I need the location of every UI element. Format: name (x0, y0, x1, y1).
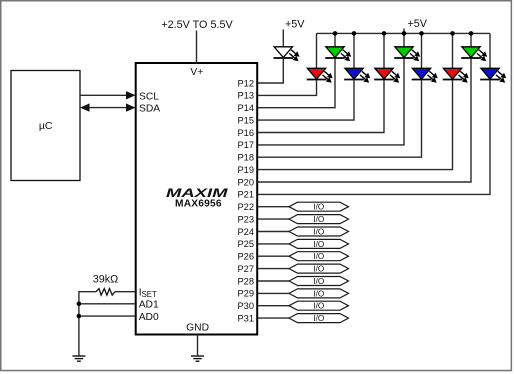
svg-text:P20: P20 (237, 177, 254, 187)
svg-text:P21: P21 (237, 190, 254, 200)
svg-text:P27: P27 (237, 264, 254, 274)
svg-text:P25: P25 (237, 239, 254, 249)
wire D4 (blue) cathode to pin P15 (258, 80, 355, 120)
junction node AD0 (77, 314, 82, 319)
ground (resistor/AD net) (72, 356, 85, 361)
wire V+ supply (196, 31, 198, 64)
ground (GND pin) (191, 356, 204, 361)
svg-text:+2.5V TO 5.5V: +2.5V TO 5.5V (161, 19, 233, 31)
I/O port node (P25) (289, 239, 349, 248)
wire P26 to I/O port (258, 255, 290, 257)
junction node AD1 (77, 302, 82, 307)
I/O port node (P28) (289, 277, 349, 286)
I/O port node (P29) (289, 289, 349, 298)
LED D9 (green) (461, 47, 487, 61)
I/O port node (P27) (289, 264, 349, 273)
svg-text:µC: µC (39, 120, 53, 132)
svg-text:I/O: I/O (313, 240, 324, 249)
wire +5V rail to D5 (red) anode (383, 33, 385, 69)
svg-text:P13: P13 (237, 91, 254, 101)
wire D6 (green) cathode to pin P17 (258, 58, 405, 144)
LED D1 (white) (274, 47, 300, 61)
svg-text:P23: P23 (237, 214, 254, 224)
junction dots on +5V rail (333, 31, 474, 36)
I/O port node (P26) (289, 252, 349, 261)
I/O port node (P31) (289, 314, 349, 323)
svg-text:I/O: I/O (313, 203, 324, 212)
svg-text:P17: P17 (237, 140, 254, 150)
wire +5V rail to D2 (red) anode (316, 33, 318, 69)
wire P25 to I/O port (258, 243, 290, 245)
svg-text:P26: P26 (237, 252, 254, 262)
IC U1 MAX6956 box (136, 63, 258, 335)
wire SCL (µC to MAX6956, arrow) (80, 91, 136, 99)
wire P27 to I/O port (258, 268, 290, 270)
wire +5V rail to D4 (blue) anode (353, 33, 355, 69)
svg-text:P12: P12 (237, 78, 254, 88)
svg-text:P29: P29 (237, 289, 254, 299)
wire D1 (white) cathode to pin P12 (258, 58, 284, 83)
wire P30 to I/O port (258, 305, 290, 307)
wire D7 (blue) cathode to pin P18 (258, 80, 422, 157)
wire +5V rail to D3 (green) anode (334, 33, 336, 47)
svg-text:I/O: I/O (313, 227, 324, 236)
LED D10 (blue) (480, 68, 506, 82)
wire D9 (green) cathode to pin P20 (258, 58, 472, 182)
I/O port node (P30) (289, 301, 349, 310)
svg-text:I/O: I/O (313, 314, 324, 323)
net +5V (left) (283, 19, 305, 48)
svg-text:P16: P16 (237, 128, 254, 138)
microcontroller U2 (µC) box (11, 71, 80, 181)
svg-text:P31: P31 (237, 313, 254, 323)
svg-text:I/O: I/O (313, 265, 324, 274)
+5V rail wire (317, 32, 491, 34)
wire P31 to I/O port (258, 317, 290, 319)
wire P29 to I/O port (258, 292, 290, 294)
LED D7 (blue) (412, 68, 438, 82)
svg-text:I/O: I/O (313, 302, 324, 311)
svg-text:SCL: SCL (139, 91, 159, 102)
svg-text:+5V: +5V (408, 18, 428, 30)
LED D4 (blue) (344, 68, 370, 82)
wire D8 (red) cathode to pin P19 (258, 80, 453, 170)
svg-text:I/O: I/O (313, 252, 324, 261)
wire P24 to I/O port (258, 231, 290, 233)
LED D8 (red) (443, 68, 469, 82)
net +5V (rail feed) (404, 18, 428, 34)
wire +5V rail to D8 (red) anode (452, 33, 454, 69)
wire GND pin (197, 335, 199, 356)
I/O port node (P23) (289, 215, 349, 224)
wire ISET to resistor (115, 291, 136, 293)
svg-text:P18: P18 (237, 153, 254, 163)
resistor R1 zigzag (96, 289, 115, 296)
svg-text:MAX6956: MAX6956 (175, 199, 222, 210)
I/O port node (P24) (289, 227, 349, 236)
svg-text:I/O: I/O (313, 289, 324, 298)
wire P23 to I/O port (258, 218, 290, 220)
svg-text:ISET: ISET (139, 287, 157, 299)
wire D5 (red) cathode to pin P16 (258, 80, 385, 133)
svg-text:P30: P30 (237, 301, 254, 311)
wire +5V rail to D9 (green) anode (470, 33, 472, 47)
wire AD0 (79, 315, 136, 317)
wire +5V rail to D10 (blue) anode (489, 33, 491, 69)
wire +5V rail to D6 (green) anode (403, 33, 405, 47)
wire D2 (red) cathode to pin P13 (258, 80, 317, 96)
wire resistor to ground rail (79, 292, 96, 356)
svg-text:P24: P24 (237, 227, 254, 237)
wire P22 to I/O port (258, 206, 290, 208)
wire SDA (bidirectional arrow) (80, 103, 136, 111)
svg-text:SDA: SDA (139, 104, 160, 115)
svg-text:I/O: I/O (313, 215, 324, 224)
svg-text:P19: P19 (237, 165, 254, 175)
svg-text:AD0: AD0 (139, 312, 159, 323)
svg-text:GND: GND (186, 322, 209, 333)
svg-text:P28: P28 (237, 276, 254, 286)
LED D2 (red) (307, 68, 333, 82)
LED D5 (red) (374, 68, 400, 82)
I/O port node (P22) (289, 202, 349, 211)
svg-text:AD1: AD1 (139, 300, 159, 311)
svg-text:39kΩ: 39kΩ (93, 274, 118, 286)
svg-text:P22: P22 (237, 202, 254, 212)
svg-text:V+: V+ (190, 67, 203, 78)
wire D3 (green) cathode to pin P14 (258, 58, 336, 107)
LED D6 (green) (394, 47, 420, 61)
svg-text:+5V: +5V (285, 19, 305, 31)
wire +5V rail to D7 (blue) anode (421, 33, 423, 69)
svg-text:I/O: I/O (313, 277, 324, 286)
wire D10 (blue) cathode to pin P21 (258, 80, 491, 194)
wire P28 to I/O port (258, 280, 290, 282)
wire AD1 (79, 303, 136, 305)
LED D3 (green) (325, 47, 351, 61)
svg-text:P15: P15 (237, 115, 254, 125)
svg-text:P14: P14 (237, 103, 254, 113)
